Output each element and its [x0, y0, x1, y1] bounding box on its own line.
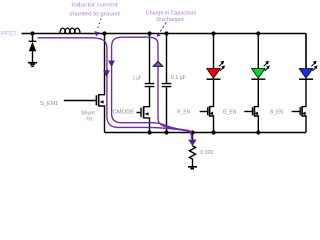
wire shunt FET source to bottom rail — [99, 106, 105, 133]
node junction dot cap2 bottom — [164, 130, 168, 134]
svg-text:S_EN1: S_EN1 — [40, 101, 58, 107]
wire CMODE source to rail — [144, 118, 150, 133]
wire R_EN gate — [200, 111, 208, 113]
svg-text:Fet: Fet — [87, 117, 93, 123]
svg-text:Discharged: Discharged — [156, 17, 183, 23]
svg-text:B_EN: B_EN — [270, 110, 283, 116]
wire top rail — [22, 33, 307, 35]
wire cap1 bottom to CMODE drain — [144, 87, 150, 106]
svg-text:shunted to ground: shunted to ground — [69, 11, 120, 17]
wire CMODE gate wire — [137, 112, 142, 114]
arrowhead into sense resistor — [188, 140, 196, 147]
transistor Q1 shunt FET — [96, 94, 103, 106]
node junction dot green FET source — [256, 130, 260, 134]
svg-text:Inductor current: Inductor current — [71, 2, 118, 8]
leader dotted inductor annotation — [95, 19, 101, 36]
current path A inductor current — [38, 38, 192, 139]
ground under resistor — [188, 166, 197, 168]
transistor Q3 R_EN FET — [208, 106, 213, 117]
wire B_EN LED to FET drain — [302, 80, 306, 107]
wire resistor top lead — [192, 133, 194, 146]
transistor Q5 B_EN FET — [300, 106, 305, 117]
arrowhead up on capacitor path — [153, 61, 163, 66]
capacitor C1 1uF — [145, 34, 155, 87]
svg-text:0.020: 0.020 — [200, 150, 213, 156]
wire bottom rail — [105, 132, 307, 134]
node junction dot shunt branch — [102, 31, 106, 35]
svg-text:G_EN: G_EN — [223, 110, 236, 116]
node junction dot sense resistor — [190, 130, 194, 134]
wire S_EN1 gate wire — [64, 100, 97, 102]
LED D3 green — [251, 34, 270, 80]
node junction dot red FET source — [211, 130, 215, 134]
wire shunt FET drain — [99, 34, 105, 95]
inductor L1 — [60, 28, 80, 33]
node junction dot diode — [30, 31, 34, 35]
wire B_EN gate — [292, 111, 301, 113]
ground under diode — [28, 62, 37, 64]
arrowhead down on path B vertical — [108, 61, 115, 68]
wire G_EN FET source to rail — [254, 116, 258, 133]
wire B_EN FET source to rail — [302, 116, 306, 133]
svg-text:CMODE: CMODE — [113, 110, 135, 116]
wire R_EN FET source to rail — [210, 116, 214, 133]
svg-text:Shunt: Shunt — [81, 110, 95, 116]
arrowhead down on path A vertical — [103, 70, 110, 77]
leader dashed capacitor annotation — [157, 22, 166, 37]
node junction dot cap2 top — [164, 31, 168, 35]
LED D2 red — [207, 34, 226, 80]
svg-text:R_EN: R_EN — [177, 110, 190, 116]
capacitor C2 0.1uF — [162, 34, 172, 133]
wire G_EN gate — [244, 111, 252, 113]
diode D1 catch diode — [29, 34, 37, 63]
LED D4 blue — [299, 34, 318, 80]
svg-text:1 µF: 1 µF — [133, 75, 142, 81]
node junction dot green LED top — [256, 31, 260, 35]
svg-text:Charge in Capacitors: Charge in Capacitors — [146, 11, 197, 17]
wire right edge drop — [305, 34, 307, 69]
svg-text:0.1 µF: 0.1 µF — [171, 75, 186, 81]
svg-text:PFET: PFET — [1, 31, 17, 37]
node junction dot red LED top — [211, 31, 215, 35]
transistor Q2 CMODE FET — [141, 106, 149, 118]
transistor Q4 G_EN FET — [253, 106, 258, 117]
wire R_EN LED to FET drain — [210, 80, 214, 107]
resistor R1 0.020 — [190, 146, 196, 166]
node junction dot cap1 top — [147, 31, 151, 35]
current path B capacitor discharge loop — [112, 37, 192, 139]
node junction dot CMODE source — [147, 130, 151, 134]
wire G_EN LED to FET drain — [254, 80, 258, 107]
